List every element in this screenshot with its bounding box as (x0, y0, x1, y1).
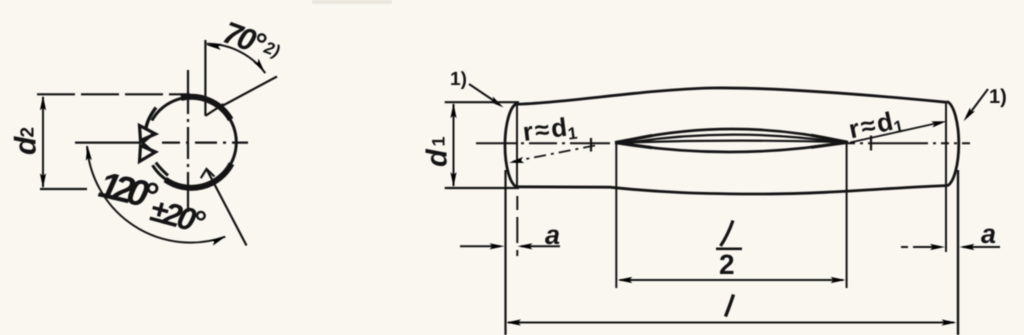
r leader right (850, 123, 940, 143)
top-right lip thickening (181, 97, 231, 120)
a dimension left: line+arrow left part (460, 245, 500, 247)
d2 top extension line (37, 93, 190, 95)
tick right (870, 136, 872, 151)
pin right crown end (947, 102, 959, 186)
scan smudge top (312, 0, 392, 4)
pin centerline right part (847, 142, 970, 144)
l/2 extension line right (846, 144, 848, 288)
svg-text:d: d (10, 136, 43, 155)
crown tangent line right (945, 102, 947, 253)
svg-text:2: 2 (719, 249, 735, 280)
l/2 dimension line (620, 279, 843, 281)
70-degree slanted line (223, 77, 277, 106)
svg-text:d: d (422, 148, 454, 167)
vertical centerline (187, 70, 189, 212)
l/2 extension line left (615, 144, 617, 288)
upper lip wedge (140, 126, 156, 141)
pin centerline left part (476, 142, 618, 144)
svg-text:1): 1) (989, 86, 1007, 108)
120-degree arc arrow top (84, 145, 91, 160)
pin cross-section circle (146, 97, 236, 187)
d1 dimension line (453, 104, 455, 186)
70-degree arc arrow right (253, 59, 267, 75)
svg-text:1: 1 (429, 136, 449, 146)
svg-text:1): 1) (450, 69, 467, 90)
crown tangent ext left (dashed) (516, 196, 518, 256)
d2 dimension line (42, 97, 44, 187)
pin top edge (517, 88, 947, 104)
lens tip fan left (615, 136, 652, 148)
leader 1) left (469, 84, 498, 104)
a dimension left: line+arrow right part (521, 245, 560, 247)
d2 bottom extension line (40, 188, 87, 190)
upper lip connector (146, 108, 156, 130)
70-degree vertex vertical line (204, 40, 206, 116)
70-degree arc arrow left (206, 42, 222, 50)
120-degree arc arrow bottom (210, 234, 226, 246)
left groove V notch (143, 134, 154, 153)
a dimension right: line+arrow right part (963, 246, 1000, 248)
d1 arrow down (450, 172, 456, 187)
d2 arrow up (40, 96, 46, 111)
svg-text:a: a (545, 220, 560, 250)
svg-text:2: 2 (18, 127, 39, 138)
120-degree arc (87, 146, 225, 243)
a dimension right: dash + line + arrow (901, 246, 941, 248)
bottom lip thickening (165, 164, 231, 188)
tick left (590, 138, 592, 152)
r leader left (dash-dot) (513, 146, 595, 162)
l arrow left (506, 319, 521, 325)
top groove notch edge (205, 104, 223, 116)
pin left crown end (505, 104, 517, 188)
lower lip wedge (140, 146, 156, 162)
lower lip connector (156, 163, 168, 176)
horizontal centerline (75, 142, 248, 144)
fraction bar (716, 248, 742, 251)
lens tip fan right (811, 135, 848, 147)
70-degree arc (207, 44, 265, 73)
l/2 arrow right (831, 277, 846, 283)
l extension line left (504, 170, 506, 335)
label l/2 numerator (721, 221, 734, 247)
d1 arrow up (450, 103, 456, 118)
groove lens inner top (629, 135, 838, 143)
crown tangent line left (516, 102, 518, 188)
leader 1) right (967, 89, 988, 117)
d2 arrow down (40, 173, 46, 188)
bottom-right groove notch edges (201, 169, 215, 178)
groove lens middle (617, 141, 847, 143)
l dimension line (508, 322, 954, 324)
label l (726, 295, 734, 317)
groove lens bottom (617, 142, 847, 152)
l extension line right (957, 170, 959, 335)
pin bottom edge (517, 186, 947, 194)
leader from bottom groove (207, 170, 247, 246)
d1 bottom extension line (445, 187, 519, 189)
groove lens outer top (617, 129, 847, 143)
svg-text:a: a (981, 219, 996, 249)
d1 top extension line (445, 101, 519, 103)
l/2 arrow left (617, 277, 632, 283)
left groove zone blank (133, 113, 163, 173)
l arrow right (942, 319, 957, 325)
